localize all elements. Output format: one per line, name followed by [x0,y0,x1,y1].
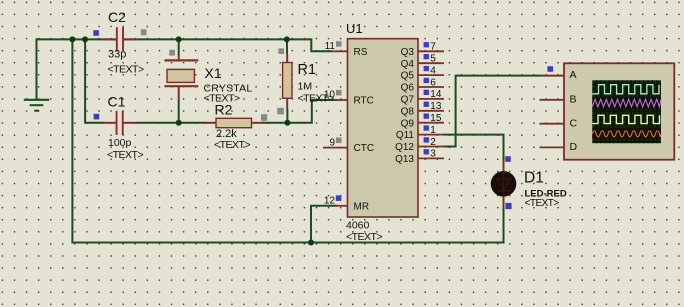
svg-text:11: 11 [325,41,336,52]
node junction MR bottom rail [308,240,314,246]
wire R1 top tap [286,39,288,54]
waveform trace D (red sine) [592,131,661,137]
wire R1 bottom to junction [286,109,288,124]
svg-text:1: 1 [430,125,436,136]
svg-text:Q7: Q7 [401,95,415,106]
node junction crystal bottom [176,120,182,126]
svg-text:C2: C2 [108,9,126,25]
capacitor C2 [93,9,146,75]
wire C1 feed from top net [85,39,104,122]
svg-text:<TEXT>: <TEXT> [107,149,143,161]
waveform trace B (violet triangle) [592,99,661,107]
svg-text:<TEXT>: <TEXT> [108,63,144,75]
wire Q11 to LED anode [443,135,504,160]
junction node dots [69,36,314,245]
svg-text:6: 6 [430,77,436,88]
crystal X1 [164,50,252,105]
LED D1 [491,156,567,209]
scope input A [541,75,564,77]
svg-text:Q8: Q8 [401,106,415,117]
svg-text:<TEXT>: <TEXT> [346,231,382,243]
resistor R1 value 1M [277,48,334,114]
svg-text:33p: 33p [108,49,126,61]
wire C1 to crystal to R2 [137,122,206,124]
screen band D afterglow [592,129,661,139]
svg-text:D1: D1 [524,170,544,187]
svg-text:14: 14 [430,89,442,100]
svg-text:9: 9 [329,137,335,148]
svg-text:Q13: Q13 [395,154,414,165]
screen graticule [592,80,661,143]
node junction C1 feed [82,36,88,42]
SECTION: wires [36,38,542,242]
svg-text:5: 5 [430,54,436,65]
U1 pin 13 Q8 [401,101,444,117]
U1 pin 4 Q5 [401,65,444,81]
svg-text:Q11: Q11 [396,130,415,141]
wire top net segment left of C2 [36,38,117,40]
U1 pin 14 Q7 [401,89,444,105]
U1 pin 10 RTC [324,90,374,107]
IC U1 4060 body [346,21,418,243]
wire ground riser [36,38,38,99]
U1 pin 2 Q12 [395,137,444,153]
waveform trace C (yellow square) [592,115,659,123]
svg-text:Q12: Q12 [395,142,414,153]
svg-text:Q6: Q6 [401,83,415,94]
svg-text:X1: X1 [205,65,222,81]
svg-text:B: B [570,93,577,105]
U1 pin 6 Q6 [401,77,444,93]
U1 pin 7 Q3 [401,42,444,58]
wire MR pin to bottom rail [311,206,337,243]
node junction R1 top [284,36,290,42]
wire top net C2 to RS corner [124,39,332,51]
U1 pin 5 Q4 [401,54,444,70]
wire crystal top drop [178,39,180,55]
svg-text:RS: RS [354,47,368,58]
scope input B [540,99,565,101]
wire junction to RTC pin [287,100,337,123]
svg-text:100p: 100p [108,137,132,149]
svg-text:Q4: Q4 [401,59,415,70]
svg-text:7: 7 [430,42,436,53]
U1 pin 9 CTC [323,137,374,154]
wire crystal bottom drop [178,99,180,123]
svg-text:4060: 4060 [346,220,370,232]
svg-text:Q9: Q9 [401,118,415,129]
svg-text:<TEXT>: <TEXT> [525,198,560,209]
svg-text:Q3: Q3 [401,47,415,58]
svg-text:2: 2 [430,137,436,148]
U1 pin 11 RS [325,41,368,58]
svg-text:A: A [570,69,577,81]
scope input D [540,146,565,148]
U1 pin 12 MR [324,195,369,212]
svg-text:C1: C1 [108,94,126,110]
ground [24,100,49,111]
svg-text:R1: R1 [298,62,317,78]
svg-text:<TEXT>: <TEXT> [214,139,250,151]
scope input C [540,123,565,125]
screen band B afterglow [592,98,661,109]
scope screen [592,80,661,143]
U1 pin 15 Q9 [401,113,444,129]
svg-text:4: 4 [430,65,436,76]
capacitor C1 [94,94,144,161]
node junction crystal top [176,36,182,42]
svg-text:1M: 1M [298,80,313,92]
svg-text:3: 3 [430,149,436,160]
resistor R2 value 2.2k [204,102,267,152]
svg-text:10: 10 [324,90,336,101]
oscilloscope instrument [540,63,675,159]
svg-text:Q5: Q5 [401,71,415,82]
U1 pin 1 Q11 [396,125,444,141]
wire Q12 up to scope A [443,76,541,147]
svg-text:C: C [570,117,578,129]
svg-text:CTC: CTC [354,143,375,154]
wire R2 right to R1 bottom junction [262,122,287,124]
svg-text:MR: MR [354,201,370,212]
node junction top-left rail [69,36,75,42]
svg-text:R2: R2 [215,102,233,118]
svg-text:15: 15 [430,113,442,124]
waveform trace A (green square) [592,85,659,94]
svg-text:D: D [570,141,578,153]
U1 pin 3 Q13 [395,149,444,165]
svg-text:13: 13 [430,101,442,112]
wire left rail down and bottom rail to D1 cathode [72,39,503,242]
node junction R1 bottom / R2 [284,120,290,126]
svg-text:U1: U1 [346,21,363,36]
svg-text:RTC: RTC [354,96,374,107]
svg-text:12: 12 [324,196,336,207]
